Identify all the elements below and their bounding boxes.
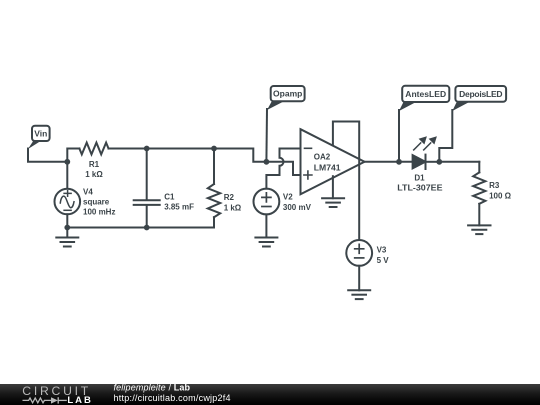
node AntesLED flag: [399, 86, 449, 111]
svg-text:5 V: 5 V: [377, 256, 390, 265]
source V2: [254, 189, 280, 238]
resistor R1: [79, 143, 108, 155]
junction DepoisLED: [436, 159, 442, 165]
source V3: [346, 240, 372, 290]
svg-text:V2: V2: [283, 193, 293, 202]
junction C1 bottom: [144, 225, 150, 231]
wire bottom rail: [67, 227, 214, 229]
svg-text:felipempleite / Lab: felipempleite / Lab: [114, 383, 191, 393]
wire op-amp V- pin: [332, 176, 334, 198]
junction C1 top: [144, 146, 150, 152]
junction Vin: [64, 159, 70, 165]
ground R3: [468, 225, 490, 234]
svg-text:R2: R2: [224, 193, 235, 202]
svg-text:Vin: Vin: [34, 129, 47, 139]
svg-text:R3: R3: [489, 181, 500, 190]
logo resistor and diode: [23, 397, 67, 403]
svg-text:1 kΩ: 1 kΩ: [85, 170, 103, 179]
wire top rail left: [67, 149, 79, 162]
svg-text:LAB: LAB: [67, 395, 91, 405]
node DepoisLED flag: [452, 86, 506, 111]
svg-text:1 kΩ: 1 kΩ: [224, 203, 242, 212]
wire R1 to C1 top: [109, 148, 147, 150]
svg-text:100 Ω: 100 Ω: [489, 191, 512, 200]
wire Vin to node: [28, 149, 67, 162]
svg-text:V3: V3: [377, 246, 387, 255]
junction V4 bottom: [64, 225, 70, 231]
wire R2 top to opamp node (step down): [214, 149, 266, 162]
svg-text:3.85 mF: 3.85 mF: [164, 203, 194, 212]
LED D1 arrows: [414, 136, 437, 150]
svg-text:http://circuitlab.com/cwjp2f4: http://circuitlab.com/cwjp2f4: [114, 393, 231, 403]
wire V2 plus to op-amp minus input (with hop): [266, 149, 300, 189]
svg-text:V4: V4: [83, 188, 93, 197]
ground V3: [348, 290, 370, 299]
svg-text:OA2: OA2: [314, 152, 331, 161]
svg-text:C1: C1: [164, 192, 175, 201]
svg-text:DepoisLED: DepoisLED: [459, 89, 502, 99]
svg-text:D1: D1: [414, 174, 425, 183]
wire to op-amp plus input: [266, 162, 300, 175]
op-amp minus sign: [305, 147, 312, 149]
wire D1 to R3: [439, 161, 479, 163]
op-amp OA2 triangle: [301, 129, 365, 194]
node Opamp flag: [267, 86, 305, 110]
ground V2: [255, 238, 277, 247]
wire Opamp node down: [265, 109, 268, 162]
resistor R2: [208, 149, 220, 228]
node Vin flag: [28, 126, 50, 149]
wire op-amp V+ pin to V3: [333, 122, 359, 241]
source V4 square: [55, 162, 81, 228]
junction AntesLED: [396, 159, 402, 165]
svg-text:Opamp: Opamp: [273, 89, 302, 99]
junction R2 top: [211, 146, 217, 152]
capacitor C1: [134, 149, 160, 228]
junction Opamp: [264, 159, 270, 165]
op-amp plus sign: [304, 171, 312, 179]
svg-text:LTL-307EE: LTL-307EE: [397, 184, 443, 193]
svg-text:AntesLED: AntesLED: [405, 89, 446, 99]
wire op-amp output: [365, 161, 413, 163]
ground V4: [56, 228, 78, 247]
svg-text:square: square: [83, 198, 110, 207]
svg-text:300 mV: 300 mV: [283, 203, 312, 212]
resistor R3: [473, 162, 485, 226]
wire DepoisLED node down: [439, 110, 452, 162]
LED D1: [413, 155, 440, 169]
wire C1 top to R2 top: [147, 148, 214, 150]
svg-text:LM741: LM741: [314, 163, 341, 172]
svg-text:100 mHz: 100 mHz: [83, 207, 115, 216]
wire AntesLED node down: [398, 110, 400, 162]
ground op-amp: [322, 198, 344, 207]
svg-text:R1: R1: [89, 160, 100, 169]
